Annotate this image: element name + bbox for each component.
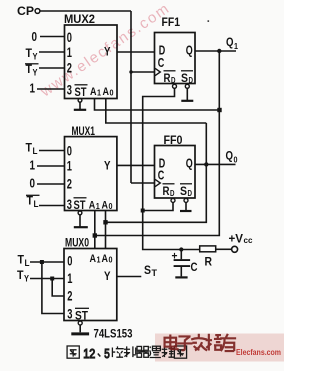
svg-text:ST: ST bbox=[74, 198, 87, 212]
junction CP / FF1 C bbox=[129, 70, 132, 73]
svg-text:CP: CP bbox=[17, 4, 34, 18]
svg-text:0: 0 bbox=[234, 155, 238, 165]
ground MUX2 ST bbox=[74, 98, 86, 109]
wire MUX1 A1 vertical to MUX0 bbox=[94, 211, 96, 249]
clock edge triangle FF0 bbox=[155, 179, 160, 186]
svg-text:1: 1 bbox=[97, 89, 101, 98]
watermark block: dianzi fashaoyou Elecfans.com bbox=[165, 334, 282, 357]
svg-text:3: 3 bbox=[67, 196, 72, 212]
junction reset bus bbox=[141, 209, 145, 213]
svg-text:FF0: FF0 bbox=[164, 135, 183, 147]
svg-text:A: A bbox=[90, 253, 97, 265]
svg-text:2: 2 bbox=[67, 288, 72, 304]
svg-text:1: 1 bbox=[67, 44, 72, 60]
wire CP branch to FF1 C bbox=[131, 71, 155, 73]
svg-text:0: 0 bbox=[109, 256, 113, 265]
svg-text:A: A bbox=[89, 200, 96, 212]
junction Q1 / MUX1 A1 bbox=[93, 233, 97, 237]
wire MUX1 Y to FF0 D bbox=[117, 164, 155, 166]
wire CP clock bus vertical bbox=[130, 11, 132, 183]
ground MUX0 ST bbox=[71, 321, 89, 334]
pin label MUX0 A0 bbox=[102, 253, 113, 265]
svg-text:R: R bbox=[205, 255, 213, 269]
svg-text:S: S bbox=[180, 184, 187, 198]
svg-text:C: C bbox=[191, 260, 198, 274]
clock edge triangle FF1 bbox=[155, 68, 160, 75]
svg-text:D: D bbox=[188, 188, 193, 198]
wire Q0 bus to MUX1 A0 bbox=[106, 123, 207, 222]
svg-text:0: 0 bbox=[67, 143, 72, 159]
svg-text:2: 2 bbox=[67, 176, 72, 192]
wire MUX1 A0 vertical to MUX0 bbox=[105, 211, 107, 249]
svg-text:A: A bbox=[102, 200, 109, 212]
svg-text:R: R bbox=[163, 184, 170, 198]
pin label MUX2 A1 bbox=[90, 86, 101, 98]
pin label FF1 RD-bar bbox=[164, 71, 176, 85]
svg-text:0: 0 bbox=[32, 29, 38, 44]
svg-text:FF1: FF1 bbox=[162, 17, 181, 29]
svg-text:S: S bbox=[144, 263, 151, 277]
wire TL branch to MUX0 input 3 bbox=[42, 262, 64, 314]
svg-text:Y: Y bbox=[24, 274, 29, 284]
pin label MUX0 A1 bbox=[90, 253, 101, 265]
node label Q1 bbox=[226, 35, 238, 51]
junction A1 / Q1 bus bbox=[217, 108, 221, 112]
svg-text:Q: Q bbox=[186, 156, 193, 171]
pin label MUX2 /ST bbox=[75, 85, 88, 99]
junction TL branch bbox=[40, 260, 44, 264]
wire MUX2 input 2 bbox=[39, 67, 65, 69]
svg-text:D: D bbox=[170, 188, 175, 198]
wire TY branch to MUX0 input 2 bbox=[52, 279, 64, 297]
svg-text:L: L bbox=[34, 199, 39, 209]
wire MUX2 A1 to Q1 bus bbox=[95, 99, 220, 111]
wire MUX1 input 0 bbox=[39, 150, 65, 152]
svg-text:3: 3 bbox=[67, 306, 72, 322]
wire MUX1 input 2 bbox=[37, 183, 65, 185]
svg-text:0: 0 bbox=[109, 202, 113, 211]
ground MUX1 ST bbox=[74, 211, 88, 227]
wire CP horizontal bbox=[40, 10, 131, 12]
svg-text:A: A bbox=[90, 86, 97, 98]
watermark block background bbox=[155, 334, 284, 362]
node label TL-bar bbox=[26, 194, 40, 210]
svg-text:Y: Y bbox=[33, 52, 38, 62]
junction TY branch bbox=[50, 277, 54, 281]
ground FF0 SD bbox=[180, 198, 192, 211]
wire FF1 Q output bbox=[195, 50, 236, 52]
svg-text:MUX1: MUX1 bbox=[72, 126, 96, 138]
caption figure title: tu 12.5 kongzhiqi luojitu bbox=[67, 346, 187, 361]
node label ST output bbox=[144, 263, 158, 278]
junction Q0 bbox=[204, 162, 208, 166]
svg-text:74LS153: 74LS153 bbox=[94, 329, 133, 341]
svg-text:3: 3 bbox=[67, 82, 72, 98]
svg-text:C: C bbox=[158, 168, 165, 183]
multiplexer MUX1 bbox=[65, 126, 117, 211]
node label TY (MUX0) bbox=[17, 268, 29, 284]
node label TL bbox=[26, 141, 38, 157]
wire MUX2 input 3 bbox=[37, 88, 65, 90]
svg-text:1: 1 bbox=[234, 41, 238, 51]
svg-text:D: D bbox=[171, 75, 176, 85]
svg-text:12: 12 bbox=[83, 347, 95, 361]
pin label FF0 RD-bar bbox=[163, 184, 175, 198]
wire MUX0 Y output ST bbox=[117, 276, 142, 278]
node +Vcc terminal bbox=[229, 234, 253, 253]
wire MUX2 input 0 bbox=[40, 36, 65, 38]
svg-text:ST: ST bbox=[75, 309, 89, 323]
capacitor C polarized bbox=[172, 250, 198, 278]
svg-text:2: 2 bbox=[67, 60, 72, 76]
junction Q1 bbox=[217, 49, 221, 53]
node CP input terminal bbox=[17, 4, 40, 18]
svg-text:ST: ST bbox=[75, 85, 88, 99]
svg-text:A: A bbox=[102, 253, 109, 265]
svg-text:1: 1 bbox=[96, 202, 100, 211]
svg-text:Q: Q bbox=[226, 149, 234, 163]
pin label FF1 SD-bar bbox=[181, 71, 193, 85]
watermark diagonal www.elecfans.com bbox=[37, 0, 174, 101]
ground FF1 SD bbox=[181, 84, 193, 101]
multiplexer MUX2 bbox=[64, 14, 117, 99]
svg-text:Y: Y bbox=[104, 269, 111, 283]
pin label MUX0 /ST bbox=[75, 308, 89, 322]
node label TL (MUX0) bbox=[18, 253, 30, 269]
wire FF0 Q output bbox=[195, 163, 236, 165]
wire MUX1 input 3 bbox=[39, 205, 65, 207]
svg-text:+V: +V bbox=[229, 234, 244, 246]
svg-text:0: 0 bbox=[30, 176, 36, 191]
svg-text:MUX2: MUX2 bbox=[64, 14, 95, 26]
wire Q1 feedback bus bbox=[95, 51, 220, 236]
svg-text:cc: cc bbox=[244, 235, 253, 245]
svg-text:Y: Y bbox=[104, 45, 111, 59]
wire MUX1 input 1 bbox=[37, 165, 65, 167]
svg-text:0: 0 bbox=[67, 29, 72, 45]
wire FF0 RD to reset bus bbox=[143, 198, 175, 210]
wire resistor to Vcc bbox=[216, 248, 232, 250]
svg-text:D: D bbox=[189, 75, 194, 85]
svg-text:0: 0 bbox=[67, 253, 72, 269]
resistor R bbox=[200, 246, 216, 269]
pin label MUX1 A1 bbox=[89, 200, 100, 212]
junction Q0 / MUX1 A0 bbox=[103, 220, 107, 224]
wire MUX0 input 0 bbox=[30, 261, 64, 263]
wire FF1 RD to reset bus bbox=[143, 84, 200, 249]
svg-text:1: 1 bbox=[67, 270, 72, 286]
node label Q0 bbox=[226, 149, 238, 165]
svg-text:Y: Y bbox=[104, 159, 111, 173]
node label TY-bar bbox=[25, 62, 39, 78]
svg-text:S: S bbox=[181, 71, 188, 85]
wire MUX2 input 1 bbox=[39, 51, 65, 53]
svg-text:R: R bbox=[164, 71, 171, 85]
svg-text:Elecfans.com: Elecfans.com bbox=[236, 347, 281, 357]
svg-text:C: C bbox=[158, 55, 165, 70]
flip-flop FF1 bbox=[155, 17, 196, 84]
wire MUX2 Y to FF1 D bbox=[117, 51, 155, 53]
wire MUX0 input 1 bbox=[30, 278, 64, 280]
svg-text:A: A bbox=[103, 86, 110, 98]
svg-text:1: 1 bbox=[30, 158, 36, 173]
svg-text:1: 1 bbox=[97, 256, 101, 265]
svg-text:1: 1 bbox=[30, 81, 36, 96]
svg-text:L: L bbox=[25, 258, 30, 268]
svg-text:Q: Q bbox=[226, 35, 234, 49]
node label TY bbox=[26, 46, 38, 62]
svg-text:MUX0: MUX0 bbox=[65, 238, 89, 250]
stray ink dot bbox=[208, 20, 210, 22]
svg-text:Q: Q bbox=[186, 43, 193, 58]
wire MUX2 A0 to Q0 bus bbox=[106, 99, 207, 124]
pin label MUX1 /ST bbox=[74, 198, 87, 212]
pin label FF0 SD-bar bbox=[180, 184, 192, 198]
wire CP corner to FF0 C bbox=[131, 182, 155, 184]
flip-flop FF0 bbox=[155, 135, 196, 198]
svg-text:L: L bbox=[33, 146, 38, 156]
pin label MUX2 A0 bbox=[103, 86, 114, 98]
multiplexer MUX0 bbox=[64, 238, 117, 321]
svg-text:5: 5 bbox=[104, 347, 110, 361]
svg-text:0: 0 bbox=[110, 89, 114, 98]
svg-text:Y: Y bbox=[33, 68, 38, 78]
pin label MUX1 A0 bbox=[102, 200, 113, 212]
svg-text:1: 1 bbox=[67, 158, 72, 174]
svg-text:T: T bbox=[152, 268, 158, 278]
junction R C reset node bbox=[179, 247, 183, 251]
